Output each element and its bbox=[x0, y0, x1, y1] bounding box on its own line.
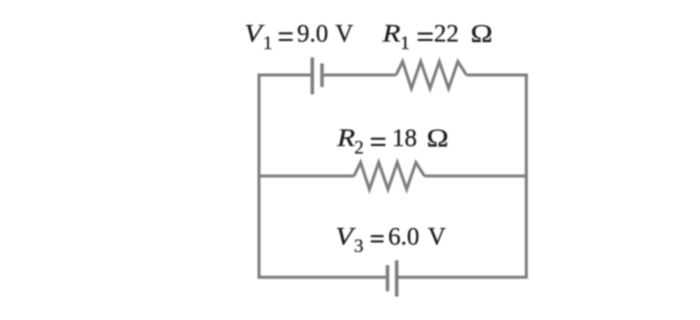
svg-text:Ω: Ω bbox=[427, 125, 449, 152]
wire: middle-left segment to resistor R2 bbox=[259, 175, 354, 178]
svg-text:V: V bbox=[428, 224, 446, 251]
label R1 = 22 ohm bbox=[381, 21, 492, 55]
battery V1 long plate (positive) bbox=[311, 57, 315, 94]
wire: bottom-left segment to battery V3 bbox=[258, 276, 388, 279]
svg-text:18: 18 bbox=[392, 125, 417, 152]
svg-text:V: V bbox=[335, 21, 353, 48]
label V3 = 6.0 V bbox=[336, 224, 446, 258]
svg-text:R: R bbox=[336, 125, 355, 152]
svg-text:3: 3 bbox=[354, 236, 364, 257]
svg-text:Ω: Ω bbox=[471, 21, 493, 48]
svg-text:22: 22 bbox=[434, 21, 459, 48]
wire: top segment between battery V1 and resistor R1 bbox=[322, 74, 396, 77]
svg-text:2: 2 bbox=[354, 137, 364, 158]
svg-text:6.0: 6.0 bbox=[388, 224, 419, 251]
resistor R2 zigzag bbox=[354, 162, 424, 189]
wire: top-left segment to battery V1 bbox=[258, 74, 313, 77]
battery V3 short plate (negative) bbox=[386, 265, 390, 291]
wire: left vertical side bbox=[258, 75, 261, 277]
label V1 = 9.0 V bbox=[244, 21, 353, 55]
battery V3 long plate (positive) bbox=[395, 260, 399, 296]
svg-text:R: R bbox=[381, 21, 400, 48]
svg-text:V: V bbox=[244, 21, 265, 48]
wire: top-right segment from R1 to corner bbox=[466, 74, 527, 77]
wire: middle-right segment from R2 to side bbox=[424, 175, 526, 178]
resistor R1 zigzag bbox=[396, 62, 466, 89]
wire: bottom-right segment from battery V3 to corner bbox=[397, 276, 528, 279]
label R2 = 18 ohm bbox=[336, 125, 449, 158]
svg-text:9.0: 9.0 bbox=[297, 21, 328, 48]
svg-text:1: 1 bbox=[400, 33, 410, 54]
svg-text:1: 1 bbox=[263, 33, 273, 54]
wire: right vertical side bbox=[525, 75, 528, 277]
battery V1 short plate (negative) bbox=[320, 63, 324, 87]
